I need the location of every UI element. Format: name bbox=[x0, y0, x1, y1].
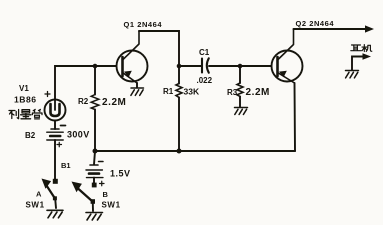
svg-text:V1: V1 bbox=[19, 84, 29, 93]
ground: below switch B bbox=[86, 213, 103, 221]
ground: earphone return bbox=[346, 71, 359, 78]
phototube V1 (1B86 counter tube) bbox=[14, 84, 66, 126]
resistor R2 2.2M bbox=[78, 66, 126, 151]
svg-text:B: B bbox=[103, 190, 109, 199]
wire: bottom rail bbox=[95, 150, 295, 152]
earphone return arrow bbox=[352, 53, 371, 70]
battery B1 1.5V bbox=[61, 161, 131, 186]
svg-text:B1: B1 bbox=[61, 161, 71, 170]
battery B2 300V bbox=[25, 129, 90, 147]
wire: C1 to Q2 base bbox=[209, 65, 272, 67]
node: R3/Q2 base junction bbox=[238, 64, 243, 69]
label: 剂量管 (counter tube, drawn glyphs) bbox=[9, 109, 42, 119]
label: 耳机 (earphone, drawn glyphs) bbox=[351, 45, 372, 52]
svg-text:2.2M: 2.2M bbox=[246, 87, 270, 98]
wire: Q1 emitter to ground bbox=[136, 83, 138, 88]
svg-text:33K: 33K bbox=[184, 87, 200, 97]
svg-text:C1: C1 bbox=[199, 48, 210, 57]
wire: V1 anode to Q1 base bbox=[55, 66, 116, 100]
wire: B2 to switch A bbox=[54, 140, 56, 179]
node: rail junction at R1 bbox=[177, 149, 182, 154]
node: rail junction at B1 bbox=[93, 149, 98, 154]
wire: B1 to switch B bbox=[93, 178, 95, 183]
node: R1/C1 junction bbox=[177, 64, 182, 69]
resistor R1 33K bbox=[163, 66, 200, 151]
wire: Q1 collector rail to C1/R1 node bbox=[139, 31, 179, 66]
transistor Q1 2N464 bbox=[117, 20, 163, 83]
svg-text:R3: R3 bbox=[227, 88, 238, 97]
ground: below switch A bbox=[47, 210, 63, 218]
output arrow to earphone bbox=[365, 25, 374, 32]
svg-text:1.5V: 1.5V bbox=[110, 169, 131, 179]
svg-text:A: A bbox=[36, 190, 42, 199]
capacitor C1 .022 bbox=[197, 48, 213, 85]
node: base junction bbox=[93, 64, 98, 69]
switch SW1 section A bbox=[26, 179, 58, 210]
svg-text:SW1: SW1 bbox=[102, 201, 121, 210]
wire: Q2 collector rail to output bbox=[294, 28, 367, 30]
svg-text:.022: .022 bbox=[197, 76, 213, 85]
wire: V1 cathode to B2 bbox=[54, 121, 56, 130]
svg-text:R1: R1 bbox=[163, 87, 174, 96]
ground: Q1 emitter bbox=[131, 88, 144, 95]
svg-text:2.2M: 2.2M bbox=[102, 97, 126, 108]
transistor Q2 2N464 bbox=[272, 19, 335, 83]
svg-text:300V: 300V bbox=[67, 130, 90, 140]
svg-text:1B86: 1B86 bbox=[14, 95, 37, 105]
svg-text:R2: R2 bbox=[78, 97, 89, 106]
resistor R3 2.2M bbox=[227, 66, 270, 107]
svg-text:Q2 2N464: Q2 2N464 bbox=[296, 19, 335, 28]
svg-text:Q1 2N464: Q1 2N464 bbox=[124, 20, 163, 29]
ground: below R3 bbox=[235, 108, 248, 115]
wire: rail to B1 bbox=[94, 151, 95, 165]
wire: Q2 emitter down to bottom rail bbox=[294, 83, 297, 151]
switch SW1 section B bbox=[72, 182, 121, 212]
wire: node to C1 bbox=[179, 65, 201, 67]
svg-text:SW1: SW1 bbox=[26, 201, 45, 210]
svg-text:B2: B2 bbox=[25, 131, 36, 140]
